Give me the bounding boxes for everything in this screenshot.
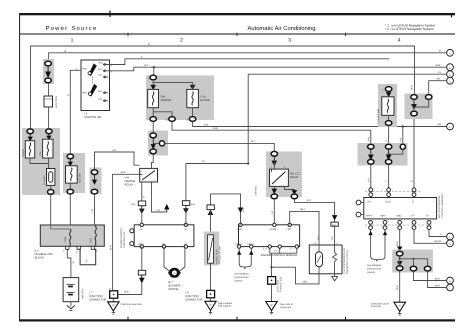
fusible link AM2 box (66, 166, 78, 183)
arrow up MPX+ (369, 231, 372, 234)
gray block panel ground connectors (392, 250, 433, 273)
wire L-B from third link up toward heater relay (95, 152, 140, 170)
tick on bottom border at x=345.5 (345, 317, 347, 320)
ignition switch box I6 (81, 60, 110, 111)
F7 bottom pin 3 square (91, 246, 94, 249)
ground triangle surge tank (266, 302, 277, 311)
svg-text:IH2: IH2 (191, 203, 195, 206)
connector ellipse ground left (397, 266, 403, 271)
ground triangle IG cowl side (108, 302, 119, 311)
wire chain col1 to panel pin (370, 164, 372, 188)
fuse GAUGE box (187, 89, 199, 107)
arrow up stub on L-O (166, 209, 168, 212)
panel mating dash line top (365, 191, 421, 193)
svg-text:W-B: W-B (121, 171, 126, 174)
controller pin circle +B (140, 223, 143, 226)
wire 50A output down to column 4 chain (388, 126, 390, 145)
gray strip A/C dual pressure switch (204, 232, 219, 266)
ignition switch lower lever pivot (88, 92, 91, 95)
arrow up on MPX2 (238, 251, 241, 254)
svg-text:+B: +B (139, 228, 142, 231)
arrow into fusible link 1 (28, 134, 32, 141)
fusible link AM2 wavy element (71, 168, 73, 181)
panel pin pair TX+ bottom circles (412, 221, 416, 225)
tick on separator at x=237 (236, 33, 238, 36)
arrow left branch (398, 262, 402, 266)
FL MAIN fusible link box (47, 169, 55, 186)
wire heater fuse output down to chain (152, 122, 154, 133)
wire VM to blower motor (164, 247, 169, 271)
wire AM2 connector down to F7 block (69, 194, 71, 225)
wire chain col2 to panel pin (388, 164, 390, 188)
svg-text:0.5R: 0.5R (90, 238, 93, 243)
svg-text:R-B: R-B (204, 123, 209, 126)
svg-text:B-Y: B-Y (145, 64, 149, 67)
wire gauge fuse down (192, 108, 194, 117)
arrow up below pressure switch connector (208, 210, 212, 214)
svg-text:P-L: P-L (202, 160, 206, 163)
gray block B main connector pair (405, 94, 433, 120)
border frame left line (19, 13, 20, 321)
tick on top border right end (451, 13, 453, 18)
merged ECM ground drop (271, 253, 273, 276)
right edge circle connector F (447, 233, 454, 240)
svg-text:D: D (449, 80, 451, 83)
wire B-Y from side ring to magnet clutch relay (165, 143, 275, 150)
fusible link W-B No.2 box (25, 141, 34, 158)
fuse 50A wavy element (387, 99, 389, 113)
F7 bottom pin 2 square (77, 246, 80, 249)
svg-text:B-R: B-R (242, 208, 245, 212)
controller pin circle A top right (184, 223, 187, 226)
svg-text:* 2 : w/ LEXUS Navigation Syst: * 2 : w/ LEXUS Navigation System (385, 27, 434, 31)
svg-text:GR: GR (438, 123, 442, 126)
arrow B pair (412, 100, 416, 109)
svg-text:surge tank: surge tank (280, 306, 292, 309)
wire coil top (318, 245, 320, 252)
arrow on GND drop (398, 247, 402, 251)
connector IK2 ellipse (45, 78, 51, 83)
arrow on SI wire (184, 205, 188, 212)
svg-text:side support: side support (218, 305, 231, 308)
svg-text:CONNECTOR: CONNECTOR (185, 298, 202, 301)
wire FL MAIN to fusible link block (50, 186, 52, 189)
connector ellipse AM2 top (67, 154, 73, 159)
tick on separator at x=345.5 (345, 33, 347, 36)
connector ellipse above fusible link 2 (46, 129, 52, 134)
connector ellipse below heater fuse (150, 117, 156, 122)
A/C dual pressure switch body (208, 235, 214, 263)
wire W-L pair hook join (414, 100, 429, 107)
svg-text:ID: ID (209, 304, 212, 307)
lock sensor element (333, 245, 337, 264)
fuse HTR 50A box (382, 97, 394, 116)
svg-text:AM2: AM2 (82, 68, 88, 71)
ground triangle instrument panel brace (394, 302, 406, 311)
panel left terminal ring upper (356, 200, 361, 205)
battery cell symbol upper (66, 283, 74, 285)
gray block heater and gauge fuses (146, 75, 214, 120)
svg-text:G: G (449, 243, 451, 246)
connector ellipse below 50A fuse (385, 121, 391, 126)
arrow into AM2 fuse (68, 159, 72, 166)
svg-text:P-L: P-L (438, 71, 442, 74)
middle connector chain gray strip below heater fuse (148, 131, 168, 156)
connector ellipse B pair bottom (411, 111, 417, 116)
J7 inner dot (113, 294, 115, 296)
wire J6 to ground triangle (210, 297, 212, 301)
svg-text:W-B: W-B (436, 64, 441, 67)
svg-text:AM2 30A: AM2 30A (79, 173, 82, 183)
svg-text:SI: SI (185, 228, 188, 231)
wire into 50A fuse (388, 92, 390, 97)
svg-text:Cowl side panel RH: Cowl side panel RH (121, 303, 142, 306)
svg-text:IH1: IH1 (132, 203, 136, 206)
tick on top border at x=110 (109, 11, 111, 18)
ECM pin circle MPX1 (250, 245, 253, 248)
wire from connector pair down (48, 83, 50, 96)
wire branch down into heater fuse block (153, 67, 155, 74)
connector ellipse ground right (424, 266, 430, 271)
svg-text:GND: GND (396, 215, 402, 218)
connector gray strip at top of column 1 (43, 59, 54, 84)
connector ellipse chain col2 bottom (385, 159, 391, 164)
arrow into heater fuse (151, 85, 155, 89)
wire B-Y relay to A15 connector and compressor clutch (294, 199, 334, 245)
panel pin pair col1 top circles (369, 188, 373, 192)
controller pin circle M (184, 245, 187, 248)
svg-text:2: 2 (180, 38, 183, 44)
wire motor to M pin (180, 247, 185, 271)
svg-text:SB-L: SB-L (300, 208, 306, 211)
panel pin pair col2 top circles (387, 188, 391, 192)
wire continue to controller +B pin (141, 209, 143, 225)
wire MPX+ and MPX- drops with brace (371, 230, 385, 262)
controller pin circle GND (140, 245, 143, 248)
connector rectangle IH1 on +B wire (138, 201, 145, 206)
arrow between third link connectors (93, 175, 97, 184)
wires ECM ground pins merge (270, 248, 297, 253)
heater relay output chain to controller +B : down wire (141, 182, 143, 201)
ECM pin circle LCK (288, 223, 291, 226)
svg-text:W-B: W-B (396, 285, 399, 290)
MG CLT relay box (270, 169, 289, 186)
svg-text:TX-: TX- (426, 215, 430, 218)
ground stub (270, 311, 273, 314)
wire W-L short run from riser bend to right edge circle (429, 81, 446, 97)
junction connector J7 box (110, 291, 118, 298)
svg-text:Power Source: Power Source (45, 25, 97, 32)
svg-text:PRESSURE SW: PRESSURE SW (219, 246, 222, 264)
E7 junction inner dot (271, 280, 273, 282)
wire to surge tank ground (271, 284, 273, 301)
svg-text:3: 3 (288, 38, 291, 44)
svg-text:IK: IK (399, 305, 402, 308)
panel pin pair MPX+ bottom circles (369, 221, 373, 225)
svg-text:HEATER: HEATER (161, 99, 172, 102)
branch to gauge fuse (153, 83, 192, 90)
connector ellipse chain top (150, 133, 156, 138)
magnet clutch coil capsule (316, 252, 323, 267)
branch stub to side ring (153, 142, 159, 144)
ignition switch coupling dashed line (92, 77, 94, 85)
panel mating dash line bottom (365, 224, 433, 226)
ignition switch pin ST1 stub (103, 76, 108, 78)
svg-text:ACC: ACC (98, 62, 103, 65)
svg-text:CONNECTOR: CONNECTOR (89, 299, 106, 302)
ECM pin circle ACMG (273, 223, 276, 226)
svg-text:GAUGE: GAUGE (200, 99, 210, 102)
ECM box (239, 225, 300, 247)
svg-text:WB: WB (303, 281, 307, 284)
arrow into 50A fuse (386, 93, 390, 97)
junction connector rectangle on column 1 wire (44, 96, 53, 107)
panel pin pair MPX- bottom circles (383, 221, 387, 225)
connector ellipse above heater fuse (150, 75, 156, 80)
svg-text:4: 4 (398, 38, 401, 44)
wire GND drop from panel (399, 230, 401, 252)
panel pin pair TX- bottom circles (427, 221, 431, 225)
wire relay output right down (285, 186, 295, 193)
gray block instrument panel connector chain (358, 143, 408, 166)
battery box (63, 278, 79, 302)
wire P-L vertical riser to top run (248, 74, 446, 163)
junction connector E7 box (268, 277, 276, 285)
svg-text:CONNECTOR: CONNECTOR (280, 276, 283, 292)
connector ellipse above 50A fuse (385, 87, 391, 92)
svg-text:2.0L: 2.0L (39, 151, 42, 156)
wire W-B compressor ground run (272, 267, 320, 284)
wire FRE riser (240, 208, 242, 225)
svg-text:W-L: W-L (437, 77, 442, 80)
fuse HEATER 50A box (148, 89, 159, 107)
ignition switch pin ACC stub (103, 63, 110, 65)
arrow into fusible link 2 (47, 134, 51, 139)
wire B+ main run from fusible link up across top to x=414.5 (31, 46, 415, 130)
svg-text:B-Y: B-Y (251, 140, 255, 143)
svg-text:C/W AMC: C/W AMC (255, 185, 258, 196)
connector IK1 ellipse (45, 61, 51, 66)
controller side terminal ring lower (130, 242, 134, 246)
svg-text:ENGINE CONTROL MODULE: ENGINE CONTROL MODULE (261, 254, 298, 257)
heater relay L-O output wire (152, 182, 167, 212)
FL MAIN inner element (49, 172, 53, 182)
F7 internal fusible link element 1 (69, 229, 71, 246)
svg-text:W-B: W-B (109, 245, 112, 250)
wire P from ACC pin stepping up to top run (110, 59, 390, 65)
junction connector inner mark (44, 98, 53, 100)
wire R-B gauge output long run to right edge (193, 122, 446, 127)
svg-text:TX+: TX+ (411, 215, 416, 218)
wire col3 hook to col2 (389, 149, 403, 154)
wire chain down into heater relay top right pin (152, 154, 154, 168)
arrow between connector pair (46, 67, 50, 78)
wire continue to controller SI pin (185, 209, 187, 225)
right edge circle connector H (447, 277, 454, 284)
wire short from pair bottom (413, 109, 415, 111)
connector ellipse relay bottom left (271, 194, 277, 199)
wire down to fusible link (48, 107, 50, 129)
wire relay output left down (273, 186, 275, 193)
wire battery feed jog (67, 258, 71, 278)
svg-text:1.25B: 1.25B (64, 236, 67, 243)
ground triangle stub (112, 311, 115, 314)
svg-text:MPX2: MPX2 (236, 243, 243, 246)
F7 bottom pin 1 square (66, 246, 69, 249)
svg-text:M: M (185, 243, 187, 246)
svg-text:0.3W-B: 0.3W-B (22, 149, 25, 157)
ignition switch pin ST2 stub (103, 100, 108, 102)
wire left branch (399, 259, 401, 266)
svg-text:System: System (367, 271, 375, 274)
arrow on +B wire (140, 206, 144, 214)
MG CLT relay coil tick (271, 169, 273, 172)
lock sensor internal ground (332, 264, 338, 281)
right edge circle connector I (447, 284, 454, 291)
blower motor body (169, 268, 181, 277)
svg-text:B-Y: B-Y (317, 236, 320, 240)
svg-text:AM1: AM1 (82, 92, 88, 95)
svg-text:1-B: 1-B (271, 211, 274, 215)
wire into relay box (273, 161, 275, 169)
arrow into gauge fuse (190, 85, 194, 89)
fusible link 1 wavy element (29, 143, 31, 156)
arrow down on FRE riser (238, 208, 242, 212)
ring connector chain col3 (400, 144, 405, 149)
pressure switch contact diagonal (209, 238, 213, 261)
svg-text:MOTOR: MOTOR (169, 288, 179, 291)
svg-text:FRE: FRE (238, 228, 243, 231)
svg-text:M: M (173, 272, 175, 275)
ECM ground pin E6 (278, 245, 281, 248)
svg-text:B-Y: B-Y (331, 236, 334, 240)
fuse GAUGE wavy element (192, 92, 194, 106)
svg-text:LCK: LCK (287, 228, 292, 231)
ground stub (398, 312, 401, 316)
svg-text:BATTERY: BATTERY (82, 288, 85, 299)
connector ellipse third link bottom (91, 189, 97, 194)
wire battery to ground (70, 302, 72, 307)
branch to middle ellipse (413, 259, 415, 266)
arrow to relay bottom connector left (272, 189, 276, 193)
heater relay box H-8 (140, 168, 158, 182)
right edge circle connector C (447, 71, 454, 78)
ECM ground pin E4 (268, 245, 271, 248)
wire R-W from heater fuse second output to column 4 (172, 122, 371, 145)
svg-text:GND: GND (139, 243, 145, 246)
wire fusible link2 down to FL MAIN (48, 158, 50, 169)
svg-text:BLOCK: BLOCK (35, 257, 44, 260)
svg-text:MPX1: MPX1 (248, 243, 255, 246)
right edge circle connector G (447, 240, 454, 247)
A/C dual pressure switch wire to ECM FRE (211, 194, 241, 208)
svg-text:ST1: ST1 (98, 74, 103, 77)
fuse HEATER wavy element (152, 92, 154, 106)
connector ellipse above fusible link 1 (27, 129, 33, 134)
connector ellipse chain col2 top (385, 144, 391, 149)
wire into heater fuse (152, 80, 154, 89)
connector ellipse below gauge fuse (189, 117, 195, 122)
svg-text:R-W: R-W (213, 127, 219, 130)
wire drop from R-B run to panel chain circle (402, 127, 404, 144)
side ring connector (159, 141, 164, 146)
junction dot (413, 106, 415, 108)
wire ground right to right edge (428, 271, 446, 287)
svg-text:IG1: IG1 (98, 68, 103, 71)
svg-text:H: H (449, 280, 451, 283)
blower motor inner circle (172, 270, 177, 275)
panel pin pair col3 top circles (412, 188, 416, 192)
wire pressure switch to J6 junction (210, 263, 212, 290)
ignition switch pin IG1 stub (103, 70, 110, 72)
connector rectangle IH2 on SI wire (182, 201, 189, 206)
connector rectangle A15 on clutch wire (331, 222, 338, 226)
junction dot col2 (388, 153, 390, 155)
A/C control panel assembly box (364, 198, 437, 219)
arrow up on MPX1 (250, 251, 253, 254)
arrow chain col2 (386, 149, 390, 159)
svg-text:System: System (235, 280, 243, 283)
wire W-B heater relay coil to ground junction (113, 174, 140, 290)
svg-text:L-O: L-O (156, 209, 160, 212)
heater relay contact diagonal (142, 171, 155, 181)
svg-text:IGNITION SW: IGNITION SW (84, 116, 101, 119)
controller pin circle VM (162, 245, 165, 248)
arrow into relay (272, 157, 276, 166)
svg-text:MPX-: MPX- (381, 215, 387, 218)
right edge circle connector D (447, 77, 454, 84)
svg-text:MAGNETIC CLUTCH): MAGNETIC CLUTCH) (346, 250, 349, 274)
connector ellipse B pair top right (426, 95, 432, 100)
MG CLT relay contact diagonal (272, 172, 286, 185)
ECM pin circle MPX2 (238, 245, 241, 248)
svg-text:RELAY: RELAY (290, 176, 299, 179)
arrow to relay bottom connector right (292, 191, 296, 195)
ECM ground pin E7 (295, 245, 298, 248)
gray strip column1 third link (90, 168, 102, 195)
junction dot P-L riser at horizontal (247, 162, 249, 164)
wire into pressure switch (210, 210, 212, 235)
svg-text:R-W: R-W (367, 136, 370, 142)
F7 internal wire left (51, 225, 70, 229)
gray block magnet clutch relay (266, 152, 302, 198)
connector ellipse third link top (91, 170, 97, 175)
J6 inner dot (210, 293, 212, 295)
wire J7 to ground triangle (112, 298, 114, 302)
ground triangle right radiator (205, 301, 216, 310)
wire GND down from controller (141, 247, 143, 271)
wire battery feed from F7 pin 1 (66, 249, 68, 258)
border frame bottom thick line (19, 319, 455, 321)
right edge circle connector E on GR run (447, 123, 454, 130)
svg-text:L-B: L-B (91, 209, 94, 213)
connector ellipse relay bottom right (291, 194, 297, 199)
arrow on GND wire (140, 275, 144, 282)
F7 internal fusible link element 2 (95, 225, 97, 246)
wire inside gray split (400, 256, 428, 266)
svg-text:BR-W: BR-W (435, 240, 442, 243)
wire AM2 fuse to bottom connector (69, 183, 71, 189)
wire ACMG from relay to ECM (273, 199, 275, 225)
svg-text:W-B: W-B (435, 284, 440, 287)
svg-text:CONTROLLER: CONTROLLER (123, 231, 126, 248)
gray block fusible link group column 1 (22, 128, 60, 195)
connector ellipse B pair top left (411, 95, 417, 100)
tick on bottom border at x=237 (236, 317, 238, 320)
tick on separator at x=128 (127, 33, 129, 36)
ignition switch upper lever pivot (88, 72, 91, 75)
connector ellipse panel ground top (397, 251, 403, 256)
